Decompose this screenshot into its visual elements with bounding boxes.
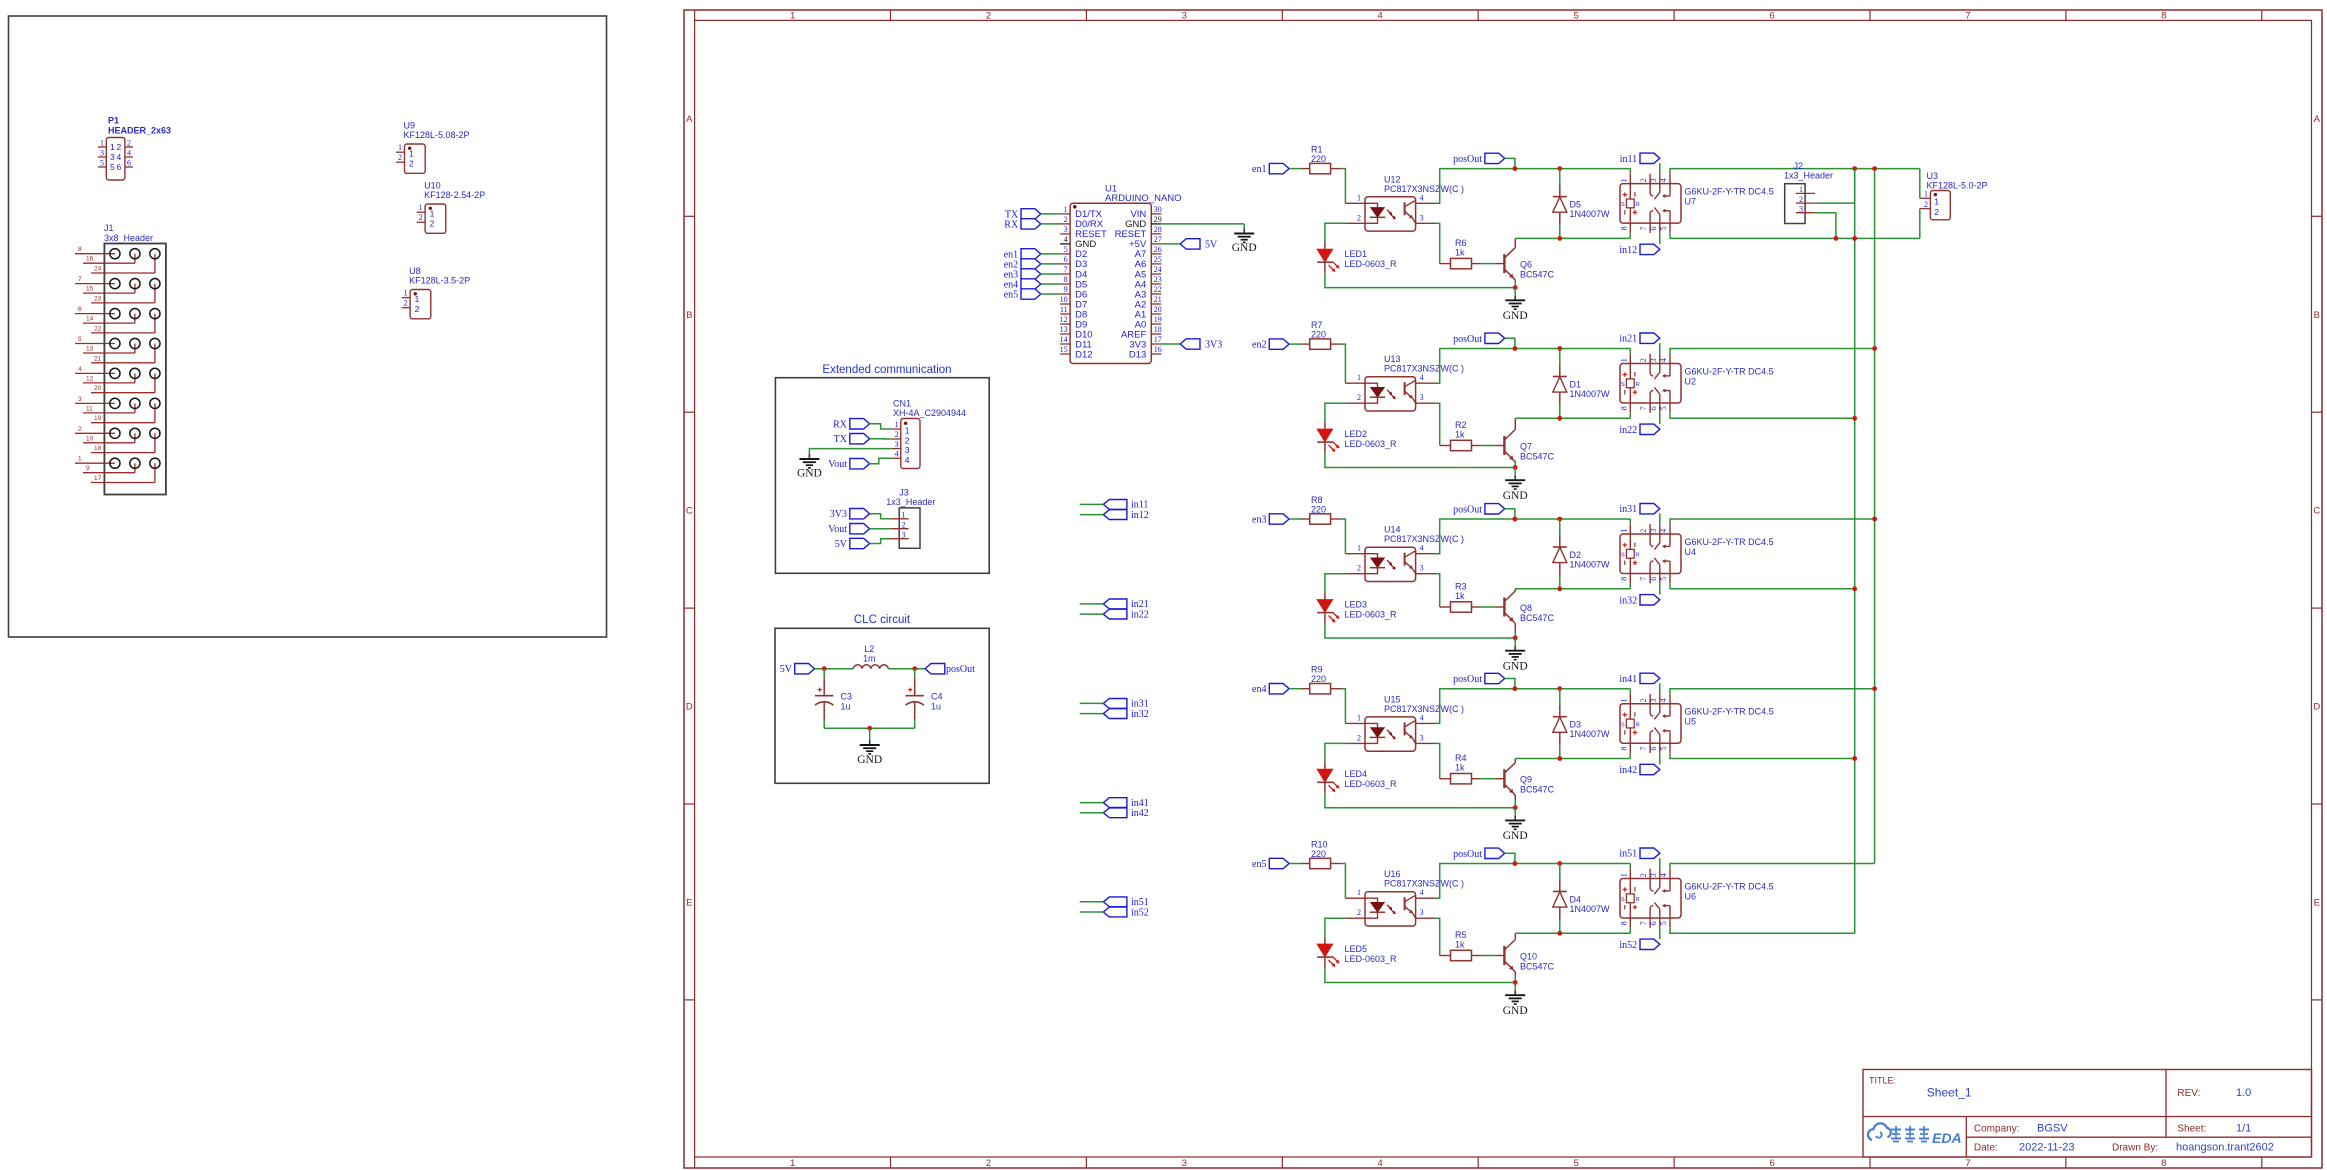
svg-text:U15: U15: [1384, 694, 1401, 704]
power flag 3V3 at U1: [1180, 339, 1200, 349]
svg-text:13: 13: [86, 346, 94, 353]
svg-text:BC547C: BC547C: [1520, 451, 1555, 461]
net flag pair in31/in32: [1103, 699, 1127, 709]
net flag in51: [1640, 848, 1660, 858]
svg-text:3: 3: [1649, 699, 1658, 703]
ground GND channel 4: [1514, 815, 1516, 820]
svg-text:KF128L-5.0-2P: KF128L-5.0-2P: [1927, 180, 1988, 190]
svg-text:5: 5: [1659, 226, 1668, 230]
svg-text:4: 4: [1659, 873, 1668, 877]
svg-text:CLC circuit: CLC circuit: [854, 614, 911, 626]
svg-text:7: 7: [1639, 921, 1648, 925]
svg-text:posOut: posOut: [1453, 674, 1482, 685]
wire coil rail bottom channel 5: [1515, 932, 1630, 934]
wire C4 bottom: [914, 719, 916, 728]
svg-text:6: 6: [78, 306, 82, 313]
svg-text:5V: 5V: [780, 664, 793, 675]
connector J1 body: [104, 244, 165, 495]
svg-text:1x3_Header: 1x3_Header: [1784, 171, 1833, 181]
U1 right pin 28 RESET: [1151, 233, 1161, 235]
svg-text:6: 6: [1649, 921, 1658, 925]
svg-text:R1: R1: [1311, 145, 1323, 155]
net flag in22: [1640, 424, 1660, 434]
svg-text:17: 17: [1154, 335, 1162, 344]
junction diode top channel 4: [1557, 686, 1562, 691]
svg-text:R6: R6: [1455, 238, 1467, 248]
resistor R10: [1301, 863, 1310, 865]
svg-text:10: 10: [86, 435, 94, 442]
transistor Q6: [1496, 263, 1505, 265]
svg-text:6: 6: [1649, 577, 1658, 581]
U1 left pin 13 D10: [1060, 333, 1070, 335]
wire opto pin2 to LED3: [1325, 574, 1346, 593]
svg-text:1: 1: [430, 209, 435, 219]
svg-text:18: 18: [1154, 325, 1162, 334]
svg-text:5: 5: [1659, 406, 1668, 410]
capacitor C4: [914, 678, 916, 696]
svg-text:D13: D13: [1129, 349, 1146, 360]
svg-text:220: 220: [1311, 505, 1326, 515]
wire C3 top: [823, 669, 825, 678]
svg-text:KF128L-5.08-2P: KF128L-5.08-2P: [404, 130, 470, 140]
svg-text:7: 7: [1639, 226, 1648, 230]
svg-text:2: 2: [1639, 358, 1648, 362]
wire relay pin1 channel 5: [1629, 864, 1631, 869]
resistor R7: [1301, 343, 1310, 345]
U1 left pin 4 GND: [1060, 243, 1070, 245]
junction diode bottom channel 1: [1557, 236, 1562, 241]
wire contact rail top channel 1: [1670, 169, 1920, 174]
svg-text:3x8_Header: 3x8_Header: [104, 233, 153, 243]
svg-text:C: C: [686, 506, 693, 517]
svg-text:LED2: LED2: [1345, 429, 1368, 439]
net flag 3V3 at J3: [850, 509, 870, 519]
wire en4 to U1 pin: [1041, 283, 1060, 285]
svg-text:5: 5: [78, 336, 82, 343]
svg-text:220: 220: [1311, 674, 1326, 684]
wire in42 to relay pin6: [1659, 753, 1661, 764]
U1 left pin 12 D9: [1060, 323, 1070, 325]
U1 left pin 2 D0/RX: [1060, 223, 1070, 225]
J2 pin 3: [1796, 212, 1815, 214]
svg-text:3: 3: [1182, 1158, 1187, 1169]
svg-text:GND: GND: [857, 754, 882, 766]
svg-text:posOut: posOut: [1453, 849, 1482, 860]
net flag 5V at J3: [850, 538, 870, 548]
wire relay pin8 channel 4: [1629, 753, 1631, 758]
svg-text:17: 17: [94, 475, 102, 482]
left panel frame: [9, 16, 607, 637]
svg-text:posOut: posOut: [1453, 154, 1482, 165]
net flag RX at U1: [1021, 219, 1041, 229]
svg-text:S: S: [1621, 202, 1625, 208]
svg-text:2: 2: [409, 159, 414, 169]
svg-text:3: 3: [1064, 225, 1068, 234]
wire J2 pin2 to top rail: [1815, 169, 1855, 204]
wire coil rail top channel 4: [1435, 689, 1630, 724]
resistor R3: [1440, 606, 1451, 608]
U1 right pin 23 A4: [1151, 283, 1161, 285]
svg-text:R: R: [1636, 722, 1640, 728]
wire Q7 emitter to gnd node: [1514, 461, 1516, 468]
svg-text:Extended communication: Extended communication: [822, 364, 951, 376]
svg-text:A: A: [686, 114, 693, 125]
svg-text:C: C: [2313, 506, 2320, 517]
wire contact rail top channel 2: [1670, 349, 1875, 354]
svg-text:4: 4: [1659, 529, 1668, 533]
bus junctions: [1852, 166, 1857, 171]
svg-text:R: R: [1636, 202, 1640, 208]
svg-text:1: 1: [1619, 178, 1628, 182]
svg-text:U7: U7: [1685, 197, 1697, 207]
wire in32 to relay pin6: [1659, 584, 1661, 595]
svg-text:5: 5: [1574, 10, 1579, 21]
wire opto pin3 to R3: [1435, 574, 1440, 607]
net flag in52: [1640, 939, 1660, 949]
wire gnd stub channel 5: [1514, 983, 1516, 991]
wire en4 to R9: [1289, 688, 1301, 690]
junction node C3: [822, 666, 827, 671]
svg-text:6: 6: [1769, 10, 1774, 21]
wire coil rail top channel 3: [1435, 519, 1630, 554]
svg-text:2: 2: [1357, 564, 1361, 573]
svg-text:1: 1: [1799, 185, 1803, 194]
svg-text:1N4007W: 1N4007W: [1570, 560, 1611, 570]
sheet outer border: [684, 10, 2322, 1168]
svg-text:4: 4: [1420, 373, 1424, 382]
svg-text:3: 3: [1420, 908, 1424, 917]
svg-text:BGSV: BGSV: [2037, 1123, 2068, 1135]
svg-text:2022-11-23: 2022-11-23: [2019, 1142, 2074, 1154]
svg-text:B: B: [2314, 310, 2320, 321]
svg-text:U6: U6: [1685, 892, 1697, 902]
wire gnd stub channel 2: [1514, 468, 1516, 476]
wire relay pin1 channel 3: [1629, 519, 1631, 524]
svg-text:4: 4: [78, 366, 82, 373]
junction CLC gnd node: [867, 726, 872, 731]
wire posOut down to rail: [1505, 158, 1515, 168]
svg-text:5: 5: [1659, 921, 1668, 925]
LED LED2: [1324, 422, 1326, 429]
svg-text:Sheet_1: Sheet_1: [1927, 1086, 1972, 1100]
svg-text:3: 3: [1799, 205, 1803, 214]
wire U1 3V3 to 3V3 flag: [1161, 343, 1180, 345]
wire posOut down to rail: [1505, 338, 1515, 348]
net flag in42: [1640, 764, 1660, 774]
svg-text:HEADER_2x63: HEADER_2x63: [108, 126, 171, 136]
svg-text:EDA: EDA: [1932, 1130, 1962, 1146]
junction diode bottom channel 2: [1557, 416, 1562, 421]
svg-text:J1: J1: [104, 223, 114, 233]
wire RX to CN1 pin1: [870, 424, 892, 429]
svg-text:1: 1: [409, 149, 414, 159]
U1 left pin 15 D12: [1060, 353, 1070, 355]
svg-text:1: 1: [895, 420, 899, 429]
wire in21 to relay pin3: [1659, 343, 1661, 354]
svg-text:U14: U14: [1384, 525, 1401, 535]
svg-text:2: 2: [430, 219, 435, 229]
svg-text:in42: in42: [1619, 765, 1637, 776]
wire R9 to opto pin1: [1341, 689, 1345, 724]
svg-text:1: 1: [78, 456, 82, 463]
wire LED3 to gnd rail: [1325, 623, 1515, 638]
svg-text:1: 1: [1619, 699, 1628, 703]
svg-text:2: 2: [78, 426, 82, 433]
svg-text:3V3: 3V3: [830, 509, 847, 520]
svg-text:in21: in21: [1619, 334, 1637, 345]
svg-text:1: 1: [398, 143, 402, 152]
wire opto pin3 to R2: [1435, 403, 1440, 445]
wire Q8 emitter to gnd node: [1514, 631, 1516, 638]
svg-text:30: 30: [1154, 205, 1162, 214]
J1 row 1 pins 8/16/24: [75, 253, 115, 255]
net flag TX at CN1: [850, 434, 870, 444]
svg-text:1: 1: [790, 1158, 795, 1169]
svg-text:3: 3: [902, 531, 906, 540]
svg-text:1k: 1k: [1455, 763, 1465, 773]
svg-text:2: 2: [1639, 873, 1648, 877]
junction posOut channel 1: [1513, 166, 1518, 171]
svg-text:3: 3: [110, 152, 115, 162]
resistor R1: [1301, 168, 1310, 170]
svg-text:en5: en5: [1252, 859, 1266, 870]
wire RX to U1 pin: [1041, 223, 1060, 225]
optocoupler U13 body: [1365, 377, 1416, 411]
U1 right pin 19 A0: [1151, 323, 1161, 325]
wire relay pin8 channel 2: [1629, 413, 1631, 418]
relay U5 body: [1620, 704, 1681, 744]
svg-text:14: 14: [1060, 335, 1068, 344]
svg-text:1N4007W: 1N4007W: [1570, 729, 1611, 739]
svg-text:4: 4: [895, 450, 899, 459]
svg-text:LED3: LED3: [1345, 600, 1368, 610]
svg-text:Q7: Q7: [1520, 442, 1532, 452]
svg-text:Q8: Q8: [1520, 603, 1532, 613]
resistor R2: [1440, 445, 1451, 447]
svg-text:3: 3: [1649, 529, 1658, 533]
svg-text:GND: GND: [1503, 1005, 1528, 1017]
svg-text:5V: 5V: [1205, 239, 1218, 250]
svg-text:2: 2: [986, 10, 991, 21]
diode D5: [1559, 169, 1561, 185]
svg-text:8: 8: [2161, 1158, 2166, 1169]
inductor L2: [853, 665, 888, 669]
svg-text:1: 1: [110, 142, 115, 152]
svg-text:J2: J2: [1794, 161, 1804, 171]
transistor Q7: [1496, 445, 1505, 447]
svg-text:8: 8: [1619, 577, 1628, 581]
svg-text:LED-0603_R: LED-0603_R: [1345, 439, 1398, 449]
ground GND channel 5: [1514, 990, 1516, 995]
svg-text:en1: en1: [1252, 164, 1266, 175]
svg-text:2: 2: [895, 430, 899, 439]
wire gnd stub channel 4: [1514, 808, 1516, 816]
svg-text:2: 2: [902, 521, 906, 530]
J1 row 4 pins 5/13/21: [75, 343, 115, 345]
svg-text:22: 22: [94, 325, 102, 332]
U1 left pin 6 D3: [1060, 263, 1070, 265]
transistor Q9: [1496, 778, 1505, 780]
svg-text:J3: J3: [899, 488, 909, 498]
wire LED5 to gnd rail: [1325, 968, 1515, 983]
svg-text:4: 4: [1378, 10, 1383, 21]
J3 pin 1: [890, 518, 909, 520]
svg-text:2: 2: [415, 304, 420, 314]
svg-text:3: 3: [1420, 733, 1424, 742]
optocoupler U15 body: [1365, 717, 1416, 751]
resistor R8: [1301, 518, 1310, 520]
wire opto pin3 to R6: [1435, 223, 1440, 263]
junction diode top channel 2: [1557, 346, 1562, 351]
svg-text:21: 21: [1154, 295, 1162, 304]
J1 row 3 pins 6/14/22: [75, 313, 115, 315]
svg-text:9: 9: [86, 465, 90, 472]
power flag 5V at U1: [1180, 239, 1200, 249]
wire Q9 emitter to gnd node: [1514, 801, 1516, 808]
ground GND channel 2: [1514, 475, 1516, 480]
svg-text:3: 3: [1182, 10, 1187, 21]
svg-text:1: 1: [1064, 205, 1068, 214]
U1 left pin 7 D4: [1060, 273, 1070, 275]
ground GND channel 1: [1514, 295, 1516, 300]
net flag posOut channel 3: [1485, 504, 1505, 514]
svg-text:KF128-2.54-2P: KF128-2.54-2P: [424, 190, 485, 200]
svg-text:GND: GND: [797, 468, 822, 480]
svg-text:BC547C: BC547C: [1520, 961, 1555, 971]
net flag en4 at U1: [1021, 279, 1041, 289]
svg-text:19: 19: [1154, 315, 1162, 324]
U1 left pin 1 D1/TX: [1060, 213, 1070, 215]
svg-text:4: 4: [1420, 713, 1424, 722]
svg-text:5V: 5V: [835, 539, 848, 550]
svg-text:7: 7: [1639, 577, 1648, 581]
resistor R6: [1440, 263, 1451, 265]
svg-text:XH-4A_C2904944: XH-4A_C2904944: [893, 408, 966, 418]
svg-text:2: 2: [1357, 393, 1361, 402]
svg-text:E: E: [686, 898, 692, 909]
ground GND channel 3: [1514, 646, 1516, 651]
svg-text:U4: U4: [1685, 547, 1697, 557]
svg-text:U2: U2: [1685, 377, 1697, 387]
svg-text:4: 4: [1064, 235, 1068, 244]
junction diode bottom channel 4: [1557, 756, 1562, 761]
junction Q7 emitter gnd: [1513, 465, 1518, 470]
svg-text:15: 15: [86, 286, 94, 293]
wire in41 to relay pin3: [1659, 683, 1661, 694]
wire stub in32: [1080, 713, 1104, 715]
wire in31 to relay pin3: [1659, 514, 1661, 525]
sheet border ticks and grid refs: [694, 10, 696, 20]
svg-text:6: 6: [1649, 747, 1658, 751]
J2 pin 1: [1796, 192, 1815, 194]
svg-text:3: 3: [1649, 178, 1658, 182]
svg-text:1: 1: [404, 289, 408, 298]
wire 5V to J3 pin3: [870, 539, 891, 544]
wire coil rail top channel 1: [1435, 169, 1630, 204]
net flag in11: [1640, 153, 1660, 163]
wire stub in42: [1080, 812, 1104, 814]
svg-text:GND: GND: [1503, 490, 1528, 502]
svg-text:U8: U8: [409, 266, 421, 276]
svg-text:1: 1: [1357, 713, 1361, 722]
svg-text:in22: in22: [1131, 609, 1149, 620]
net flag posOut in CLC: [925, 664, 945, 674]
junction Q8 emitter gnd: [1513, 636, 1518, 641]
svg-text:5: 5: [110, 162, 115, 172]
svg-text:PC817X3NSZW(C ): PC817X3NSZW(C ): [1384, 364, 1464, 374]
svg-text:TITLE:: TITLE:: [1869, 1076, 1896, 1086]
svg-text:Vout: Vout: [828, 459, 847, 470]
svg-text:in31: in31: [1619, 504, 1637, 515]
svg-text:12: 12: [86, 375, 94, 382]
svg-text:S: S: [1621, 382, 1625, 388]
svg-text:1: 1: [1924, 190, 1928, 199]
wire Q10 emitter to gnd node: [1514, 976, 1516, 983]
net flag in41: [1640, 673, 1660, 683]
svg-text:13: 13: [1060, 325, 1068, 334]
svg-text:1: 1: [1357, 373, 1361, 382]
wire posOut down to rail: [1505, 509, 1515, 519]
wire TX to U1 pin: [1041, 213, 1060, 215]
junction Q10 emitter gnd: [1513, 980, 1518, 985]
capacitor C3: [823, 678, 825, 696]
svg-text:8: 8: [78, 246, 82, 253]
CLC circuit frame: [775, 628, 989, 783]
svg-text:1: 1: [902, 511, 906, 520]
svg-text:R10: R10: [1311, 840, 1328, 850]
net flag en4: [1269, 684, 1289, 694]
svg-text:in42: in42: [1131, 808, 1149, 819]
svg-text:27: 27: [1154, 235, 1162, 244]
svg-text:LED-0603_R: LED-0603_R: [1345, 779, 1398, 789]
svg-text:RX: RX: [833, 419, 848, 430]
svg-text:7: 7: [1965, 10, 1970, 21]
svg-text:R7: R7: [1311, 320, 1323, 330]
svg-text:3: 3: [1420, 393, 1424, 402]
junction posOut channel 5: [1513, 861, 1518, 866]
wire stub in31: [1080, 702, 1104, 704]
svg-text:2: 2: [1799, 195, 1803, 204]
net flag TX at U1: [1021, 209, 1041, 219]
svg-text:en5: en5: [1004, 290, 1018, 301]
wire en2 to U1 pin: [1041, 263, 1060, 265]
wire contact rail bottom channel 3: [1670, 584, 1855, 589]
svg-text:14: 14: [86, 316, 94, 323]
wire relay pin1 channel 2: [1629, 349, 1631, 354]
wire en1 to U1 pin: [1041, 253, 1060, 255]
wire contact rail top channel 4: [1670, 689, 1875, 694]
relay U6 body: [1620, 879, 1681, 919]
svg-text:4: 4: [1378, 1158, 1383, 1169]
junction diode top channel 3: [1557, 517, 1562, 522]
svg-text:D: D: [2313, 702, 2320, 713]
svg-text:2: 2: [117, 142, 122, 152]
svg-text:G6KU-2F-Y-TR DC4.5: G6KU-2F-Y-TR DC4.5: [1685, 537, 1774, 547]
svg-text:LED-0603_R: LED-0603_R: [1345, 259, 1398, 269]
svg-text:D: D: [686, 702, 693, 713]
svg-text:5: 5: [100, 159, 104, 168]
U1 right pin 16 D13: [1151, 353, 1161, 355]
svg-text:P1: P1: [108, 116, 119, 126]
net flag RX at CN1: [850, 419, 870, 429]
svg-text:24: 24: [1154, 265, 1162, 274]
svg-text:R9: R9: [1311, 665, 1323, 675]
connector U3: [1930, 191, 1950, 220]
svg-text:S: S: [1621, 553, 1625, 559]
svg-text:in51: in51: [1619, 849, 1637, 860]
svg-text:A: A: [2314, 114, 2321, 125]
relay U7 body: [1620, 184, 1681, 224]
